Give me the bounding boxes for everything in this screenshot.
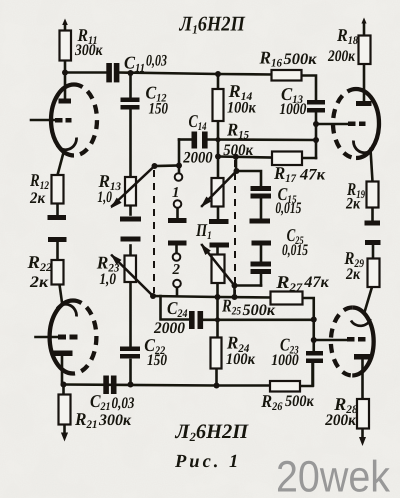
svg-text:0,03: 0,03 <box>112 395 135 412</box>
svg-text:100к: 100к <box>227 99 256 116</box>
svg-text:500к: 500к <box>243 302 276 319</box>
svg-text:20wek: 20wek <box>276 453 391 498</box>
svg-text:1: 1 <box>172 185 180 201</box>
svg-text:0,015: 0,015 <box>282 242 308 259</box>
svg-text:47к: 47к <box>299 167 326 184</box>
svg-text:47к: 47к <box>303 274 329 291</box>
svg-text:150: 150 <box>147 352 167 369</box>
svg-text:300к: 300к <box>74 42 103 59</box>
svg-text:0,015: 0,015 <box>275 200 301 217</box>
svg-text:1000: 1000 <box>271 352 299 369</box>
svg-text:150: 150 <box>149 101 169 118</box>
svg-text:200к: 200к <box>327 48 356 65</box>
svg-text:2: 2 <box>172 262 181 278</box>
svg-text:2000: 2000 <box>182 149 212 166</box>
svg-text:100к: 100к <box>226 351 256 368</box>
svg-text:Л26Н2П: Л26Н2П <box>175 421 250 444</box>
svg-text:500к: 500к <box>223 142 254 159</box>
svg-text:1,0: 1,0 <box>97 189 112 206</box>
svg-text:1,0: 1,0 <box>99 271 116 288</box>
svg-text:2к: 2к <box>29 190 46 207</box>
svg-text:500к: 500к <box>284 51 318 68</box>
svg-text:2к: 2к <box>29 274 49 291</box>
svg-text:2к: 2к <box>345 196 361 213</box>
svg-text:2к: 2к <box>345 266 361 283</box>
svg-text:300к: 300к <box>98 412 132 429</box>
svg-text:2000: 2000 <box>153 320 185 337</box>
svg-text:Рис. 1: Рис. 1 <box>174 452 241 472</box>
svg-text:200к: 200к <box>324 412 357 429</box>
svg-text:0,03: 0,03 <box>146 53 167 70</box>
svg-text:Л16Н2П: Л16Н2П <box>179 12 246 37</box>
svg-text:500к: 500к <box>285 393 315 410</box>
svg-text:1000: 1000 <box>279 101 306 118</box>
